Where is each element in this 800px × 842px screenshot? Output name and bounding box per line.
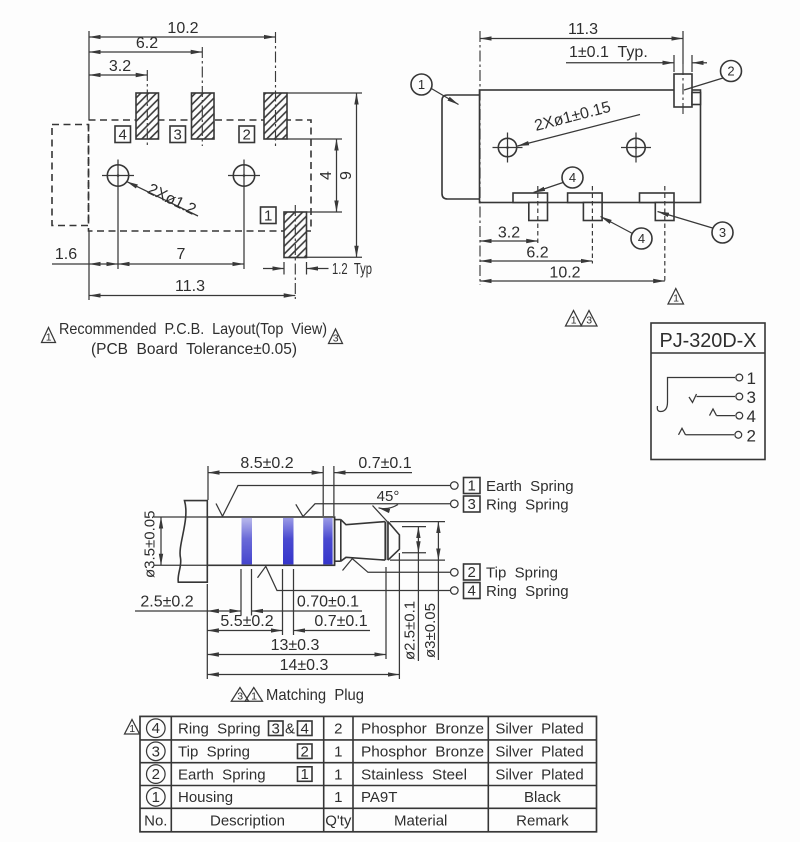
dim 5.5 (207, 613, 282, 631)
housing body (480, 90, 701, 203)
svg-text:2: 2 (334, 721, 342, 738)
svg-text:3: 3 (333, 333, 339, 345)
svg-text:4: 4 (569, 170, 576, 185)
dim 2.5 (135, 594, 241, 612)
dim 45 deg (377, 488, 400, 509)
dim 4 (318, 139, 337, 212)
svg-text:Earth Spring: Earth Spring (486, 478, 574, 495)
dim 4 extensions (288, 138, 343, 140)
row 3: tip spring (147, 742, 584, 761)
tip neck and cone (341, 520, 385, 562)
note triangles 1 and 3 (566, 311, 598, 327)
label 4 Ring Spring (464, 583, 569, 601)
svg-text:4: 4 (301, 720, 309, 737)
dim 3.2 right (480, 225, 538, 242)
balloon 2 (684, 61, 742, 91)
svg-text:1±0.1 Typ.: 1±0.1 Typ. (569, 44, 648, 61)
svg-text:Description: Description (210, 812, 285, 829)
insulator band 1 (242, 518, 253, 565)
svg-text:4: 4 (638, 231, 645, 246)
pad 1 centerline (294, 205, 296, 299)
svg-text:Silver Plated: Silver Plated (495, 766, 583, 783)
tip chamfer edge (385, 522, 388, 561)
svg-text:PA9T: PA9T (361, 789, 397, 806)
svg-text:1: 1 (571, 315, 577, 327)
svg-text:Recommended P.C.B. Layout(To: Recommended P.C.B. Layout(Top View) (59, 321, 327, 338)
header row (144, 812, 569, 829)
dim 0.7 bottom (294, 613, 371, 631)
hole 1 (102, 160, 134, 192)
table column lines (171, 716, 488, 831)
dim 6.2 right (480, 245, 592, 262)
row 1: housing (147, 788, 562, 807)
band1 extension lines (241, 569, 252, 616)
svg-text:1: 1 (747, 369, 756, 388)
leader 2X dia 1 +-0.15 (518, 99, 641, 146)
svg-text:2: 2 (301, 743, 309, 760)
svg-text:14±0.3: 14±0.3 (280, 657, 329, 674)
label 3 Ring Spring (464, 496, 569, 514)
svg-text:Earth Spring: Earth Spring (178, 766, 266, 783)
svg-text:0.7±0.1: 0.7±0.1 (314, 613, 367, 630)
svg-text:8.5±0.2: 8.5±0.2 (240, 455, 293, 472)
balloon 4b (601, 217, 653, 250)
caption triangles 3 and 1 (231, 688, 262, 703)
pad 4 centerline (146, 70, 148, 146)
svg-text:1: 1 (334, 766, 342, 783)
svg-text:Housing: Housing (178, 789, 233, 806)
barrel zone dashed outline (52, 125, 89, 226)
balloon 4a (534, 167, 584, 193)
svg-text:3: 3 (174, 127, 182, 144)
svg-text:Ring Spring: Ring Spring (486, 583, 569, 600)
dim 0.7 top (334, 455, 412, 516)
balloon 3 (658, 212, 734, 244)
dim 11.3 (89, 231, 295, 300)
svg-text:2: 2 (243, 127, 251, 144)
svg-text:2: 2 (727, 64, 734, 79)
pad 4 (136, 93, 159, 139)
pin 2 (top) (674, 74, 692, 107)
pin A shoulder (513, 193, 548, 203)
svg-text:Tip Spring: Tip Spring (486, 565, 558, 582)
svg-text:PJ-320D-X: PJ-320D-X (660, 329, 757, 352)
svg-text:ø2.5±0.1: ø2.5±0.1 (402, 601, 419, 660)
leader ring spring 3 (296, 500, 458, 517)
svg-text:1: 1 (334, 789, 342, 806)
plug barrel (207, 517, 334, 565)
svg-text:3.2: 3.2 (498, 225, 520, 242)
svg-text:1: 1 (673, 293, 679, 305)
svg-text:9: 9 (338, 171, 355, 180)
leader 2X dia 1.2 (127, 181, 199, 219)
svg-text:3: 3 (237, 690, 243, 702)
svg-text:2Xø1.2: 2Xø1.2 (145, 181, 199, 219)
dim 11.3 top (480, 21, 683, 64)
contact 1 (earth hook) (657, 369, 756, 412)
dim 0.70 (252, 594, 363, 612)
chamfer 45 extension line (373, 506, 390, 525)
pin 2 tab (692, 93, 701, 105)
row 4: ring spring (147, 719, 584, 738)
leader tip spring (343, 559, 459, 577)
svg-text:6.2: 6.2 (526, 245, 548, 262)
pin A centerline (537, 186, 539, 244)
svg-text:1.2 Typ: 1.2 Typ (332, 261, 372, 278)
plug handle collar (178, 501, 207, 583)
svg-text:4: 4 (468, 583, 476, 600)
band2 extension lines (283, 569, 294, 635)
svg-text:1: 1 (334, 744, 342, 761)
dim 13 (207, 637, 386, 655)
svg-text:Silver Plated: Silver Plated (495, 744, 583, 761)
pin 2 centerline (682, 64, 684, 116)
contact 3 (ring spring) (689, 388, 756, 407)
svg-text:10.2: 10.2 (167, 20, 198, 37)
insulator band 2 (283, 518, 294, 565)
pad 1 (284, 212, 307, 258)
tip extension lines (386, 553, 399, 679)
svg-text:Ring Spring: Ring Spring (178, 721, 261, 738)
svg-text:2: 2 (152, 766, 160, 783)
svg-text:1: 1 (468, 478, 476, 495)
dim 9 (338, 93, 357, 257)
left extension line (88, 31, 90, 120)
label box 4 (115, 126, 131, 144)
svg-text:Remark: Remark (516, 812, 569, 829)
dim 9 extensions (288, 92, 363, 94)
svg-text:3: 3 (719, 225, 726, 240)
left extension line (479, 31, 481, 285)
svg-text:1: 1 (152, 789, 160, 806)
svg-text:(PCB Board Tolerance±0.05): (PCB Board Tolerance±0.05) (91, 341, 297, 358)
note triangle row1 (125, 720, 140, 735)
hole 1 right (493, 133, 523, 163)
pad 3 centerline (201, 47, 203, 146)
svg-text:1: 1 (251, 690, 257, 702)
label 1 Earth Spring (464, 478, 574, 496)
svg-text:0.7±0.1: 0.7±0.1 (358, 455, 411, 472)
label box 2 (239, 126, 255, 144)
svg-text:4: 4 (152, 720, 160, 737)
box outline (651, 323, 765, 460)
barrel end land (335, 518, 341, 566)
svg-text:Q'ty: Q'ty (325, 812, 352, 829)
pad 2 centerline (275, 32, 277, 146)
svg-text:3: 3 (272, 720, 280, 737)
dim 1.2 Typ (263, 261, 372, 278)
svg-text:Material: Material (394, 812, 447, 829)
svg-text:45°: 45° (377, 488, 400, 505)
balloon 1 (411, 74, 459, 105)
svg-text:4: 4 (747, 407, 756, 426)
note triangle 1 (668, 289, 684, 305)
svg-text:2.5±0.2: 2.5±0.2 (140, 594, 193, 611)
svg-text:ø3.5±0.05: ø3.5±0.05 (142, 511, 159, 578)
svg-text:Stainless Steel: Stainless Steel (361, 766, 467, 783)
title divider (651, 352, 765, 354)
svg-text:11.3: 11.3 (568, 21, 598, 38)
dim 8.5 (208, 455, 323, 516)
svg-text:Silver Plated: Silver Plated (495, 721, 583, 738)
table row lines (140, 740, 597, 808)
contact 4 (ring spring) (710, 407, 756, 426)
label box 1 (261, 207, 277, 225)
svg-text:3: 3 (468, 496, 476, 513)
dim 1 +-0.1 Typ (566, 44, 707, 72)
dim 10.2 right (480, 265, 665, 282)
svg-text:Black: Black (524, 789, 561, 806)
note triangle 3 (329, 329, 343, 345)
svg-text:4: 4 (119, 127, 127, 144)
svg-text:Matching Plug: Matching Plug (266, 687, 364, 704)
svg-text:No.: No. (144, 812, 167, 829)
svg-text:3.2: 3.2 (109, 58, 131, 75)
note triangle 1 (42, 328, 56, 344)
svg-text:Tip Spring: Tip Spring (178, 744, 250, 761)
svg-text:Phosphor Bronze: Phosphor Bronze (361, 721, 484, 738)
svg-text:1: 1 (301, 766, 309, 783)
svg-text:2Xø1±0.15: 2Xø1±0.15 (533, 99, 613, 135)
svg-text:&: & (285, 721, 295, 738)
pin C leg (655, 203, 674, 221)
svg-text:1: 1 (264, 208, 272, 225)
hole 2 (228, 160, 260, 192)
leader ring spring 4 (258, 566, 459, 594)
pad 2 (264, 93, 287, 139)
dim dia 2.5 (402, 527, 427, 661)
svg-text:11.3: 11.3 (175, 278, 205, 295)
leader earth spring (216, 482, 458, 517)
pin C shoulder (640, 193, 675, 203)
svg-text:2: 2 (468, 564, 476, 581)
collar extension line (206, 584, 208, 679)
dim 1.6 (52, 246, 118, 264)
svg-text:ø3±0.05: ø3±0.05 (422, 603, 439, 658)
svg-text:0.70±0.1: 0.70±0.1 (297, 594, 359, 611)
pin B shoulder (568, 193, 603, 203)
hole 1 extension (117, 192, 119, 270)
dim dia 3.5 (142, 511, 208, 578)
svg-text:2: 2 (747, 426, 756, 445)
tip end (388, 522, 399, 561)
svg-text:1: 1 (46, 332, 52, 344)
pin C centerline (664, 186, 666, 284)
svg-text:Phosphor Bronze: Phosphor Bronze (361, 744, 484, 761)
svg-text:4: 4 (318, 171, 335, 180)
svg-text:3: 3 (586, 315, 592, 327)
svg-text:1: 1 (129, 723, 135, 735)
pad 3 (192, 93, 215, 139)
barrel bushing (442, 95, 480, 199)
svg-text:3: 3 (747, 388, 756, 407)
pin B leg (583, 203, 602, 221)
dim 14 (207, 657, 399, 675)
table outer border (140, 716, 597, 831)
hole 2 right (621, 133, 651, 163)
row 2: earth spring (147, 765, 584, 784)
label 2 Tip Spring (464, 564, 558, 582)
pin A leg (529, 203, 548, 221)
svg-text:Ring Spring: Ring Spring (486, 497, 569, 514)
svg-text:10.2: 10.2 (549, 265, 580, 282)
label box 3 (170, 126, 186, 144)
svg-text:7: 7 (177, 246, 186, 263)
svg-text:5.5±0.2: 5.5±0.2 (220, 613, 273, 630)
dim 6.2 (89, 35, 202, 52)
dim 3.2 (89, 58, 147, 75)
dim dia 3 (390, 522, 445, 660)
svg-text:13±0.3: 13±0.3 (271, 637, 320, 654)
svg-text:1: 1 (418, 77, 425, 92)
contact 2 (tip spring) (679, 426, 756, 445)
pin B centerline (591, 186, 593, 264)
svg-text:3: 3 (152, 743, 160, 760)
insulator band 3 (323, 518, 332, 565)
hole 2 extension (243, 192, 245, 270)
pcb body dashed outline (89, 120, 312, 231)
dim 7 (118, 246, 244, 264)
dim 10.2 (89, 20, 276, 37)
svg-text:1.6: 1.6 (55, 246, 77, 263)
